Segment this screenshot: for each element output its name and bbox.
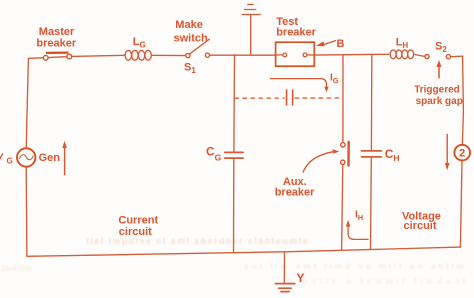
svg-text:breaker: breaker	[275, 187, 315, 199]
svg-text:Make: Make	[175, 19, 203, 31]
svg-text:Gen: Gen	[39, 152, 61, 164]
svg-text:2: 2	[459, 148, 465, 160]
svg-text:switch: switch	[174, 33, 209, 45]
svg-text:breaker: breaker	[36, 38, 76, 50]
svg-text:aut lim emt limd ne milt un an: aut lim emt limd ne milt un anlim	[244, 261, 464, 271]
svg-text:lanl tim: lanl tim	[2, 263, 32, 273]
svg-text:Master: Master	[39, 26, 75, 38]
svg-text:circuit: circuit	[119, 226, 152, 238]
svg-text:Triggered: Triggered	[414, 85, 460, 96]
svg-text:Current: Current	[118, 214, 158, 226]
svg-text:breaker: breaker	[276, 26, 316, 38]
svg-text:G: G	[7, 157, 13, 166]
svg-text:Y: Y	[297, 271, 305, 285]
svg-text:spark gap: spark gap	[416, 96, 463, 107]
svg-text:circuit: circuit	[404, 220, 437, 232]
svg-text:B: B	[337, 38, 345, 50]
svg-text:m unlie a tewmil limdeal: m unlie a tewmil limdeal	[285, 276, 465, 286]
